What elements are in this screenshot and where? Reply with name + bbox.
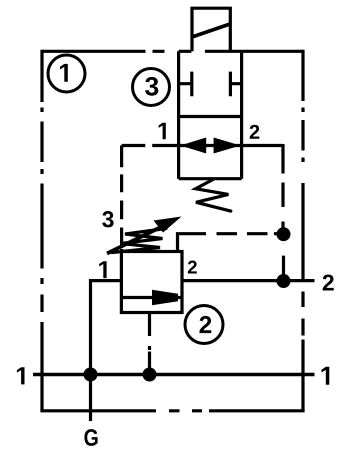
valve 3 closed position: right blocked port xyxy=(230,72,241,97)
valve 3 open position: flow path shaft (port 1 stub to port 2 elbow) xyxy=(152,144,283,147)
port label 1 (left end of rail) xyxy=(17,367,25,384)
port label 2 at valve 3 xyxy=(250,125,260,139)
pilot line from valve 3 port 1 (dashed, elbow down to valve 2) xyxy=(122,146,146,252)
gauge port G line xyxy=(89,375,92,422)
port 1 rail (main horizontal line) xyxy=(33,373,315,376)
junction dot at G tap xyxy=(84,368,98,382)
port label 2 at valve 2 xyxy=(188,261,197,274)
junction dot at pilot/port2 node xyxy=(277,227,291,241)
pilot junction drop to port 2 rail xyxy=(282,244,285,282)
port label 1 (right end of rail) xyxy=(322,367,330,385)
balloon callout 1 (enclosure id circle) xyxy=(48,55,85,92)
valve 2 port 1 line (elbow to left, down to port 1 rail) xyxy=(91,281,122,375)
balloon callout 2 (reducing valve id circle) xyxy=(185,306,223,344)
junction dot on port 2 rail xyxy=(277,274,291,288)
enclosure boundary, bottom edge xyxy=(40,409,304,412)
valve 3 open position: left arrowhead xyxy=(180,138,206,154)
enclosure boundary (dash-dot manifold outline), top edge xyxy=(42,50,303,53)
junction dot at drain tap xyxy=(143,368,157,382)
valve 3 body (2-position directional valve) xyxy=(179,51,242,178)
valve 2 drain line (dashed, down to port 1 rail) xyxy=(148,313,151,375)
valve 2 port 2 line (to port 2 rail stub at right) xyxy=(182,279,315,282)
label 3 at pilot port of valve 2 xyxy=(102,211,113,227)
valve 3 open position: right arrowhead xyxy=(214,138,241,154)
port label 2 (right end of port 2 rail) xyxy=(323,275,334,291)
gauge port label G xyxy=(84,429,97,446)
valve 2 adjustment arrow xyxy=(107,217,182,254)
valve 2 flow path with arrow xyxy=(121,296,182,299)
valve 3 return spring xyxy=(196,180,231,212)
enclosure boundary, right edge xyxy=(301,50,304,411)
solenoid coil of valve 3 xyxy=(192,8,230,51)
pilot line from valve 3 port 2 (dashed vertical down to junction) xyxy=(281,144,284,234)
valve 3 closed position: left blocked port xyxy=(179,72,192,97)
balloon callout 3 (solenoid valve id circle) xyxy=(133,69,170,106)
pilot connection from valve 2 spring chamber (solid elbow + dashed to junction) xyxy=(178,234,278,252)
valve 2 body (pressure reducing valve) xyxy=(121,252,182,313)
port label 1 at valve 3 xyxy=(159,123,166,140)
valve 2 adjustable spring zigzag xyxy=(112,229,166,253)
enclosure boundary, left edge xyxy=(40,50,43,411)
port label 1 at valve 2 xyxy=(99,261,106,278)
